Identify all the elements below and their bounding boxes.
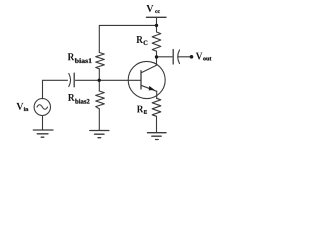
label Vcc V bbox=[146, 5, 153, 12]
wire node to Rbias2 bbox=[98, 80, 100, 91]
wire input node to cap bbox=[76, 79, 100, 81]
wire collector into transistor bbox=[141, 57, 156, 73]
transistor Q1 circle bbox=[128, 61, 165, 98]
ground RE bbox=[148, 132, 167, 134]
wire base from bias node bbox=[99, 79, 141, 81]
capacitor C1 curved plate bbox=[69, 74, 71, 87]
resistor Rbias2 zigzag bbox=[96, 91, 105, 109]
node dot Vout terminal bbox=[190, 55, 194, 59]
label RC C sub bbox=[144, 41, 148, 45]
label Vin V bbox=[16, 103, 23, 110]
wire Rbias2 to ground bbox=[98, 109, 100, 131]
label Rbias1 R bbox=[68, 53, 75, 60]
resistor Rbias1 zigzag bbox=[96, 53, 105, 69]
wire source to ground bbox=[42, 116, 44, 130]
ground Vin bbox=[33, 129, 53, 131]
wire RC bottom to collector node bbox=[156, 51, 158, 57]
resistor RC zigzag bbox=[152, 32, 161, 51]
label Rbias2 bias2 sub bbox=[75, 99, 89, 104]
wire Vcc stem bbox=[156, 17, 158, 32]
ground Rbias2 bbox=[90, 130, 109, 132]
label Vout V bbox=[196, 53, 203, 60]
wire collector node to output cap bbox=[157, 56, 173, 58]
transistor emitter arrowhead bbox=[149, 86, 155, 91]
Vcc bar bbox=[147, 16, 167, 18]
capacitor C2 straight plate bbox=[172, 50, 174, 65]
label Vout out sub bbox=[203, 57, 211, 60]
wire top rail from Rbias1 to Vcc node bbox=[99, 25, 156, 52]
resistor RE zigzag bbox=[152, 98, 161, 116]
capacitor C2 curved plate bbox=[178, 50, 180, 64]
node dot bias junction bbox=[98, 79, 101, 82]
node dot Vcc junction bbox=[155, 24, 158, 27]
wire Vin to cap bbox=[43, 80, 68, 99]
label Rbias2 R bbox=[68, 94, 75, 101]
sine wave inside source bbox=[37, 105, 48, 110]
wire RE to ground bbox=[156, 116, 158, 132]
wire emitter to RE bbox=[156, 91, 158, 98]
transistor base bar bbox=[140, 71, 142, 89]
label Rbias1 bias1 sub bbox=[75, 58, 92, 63]
AC source Vin circle bbox=[34, 99, 50, 116]
transistor emitter diagonal bbox=[141, 85, 157, 91]
label RE E sub bbox=[144, 110, 147, 113]
wire cap to Vout bbox=[178, 56, 190, 58]
node dot collector junction bbox=[155, 55, 158, 58]
label Vin in sub bbox=[24, 107, 29, 111]
label RE R bbox=[137, 106, 144, 113]
label RC R bbox=[136, 36, 143, 43]
capacitor C1 straight plate bbox=[73, 73, 75, 87]
wire Rbias1 to node bbox=[98, 69, 100, 80]
label Vcc cc sub bbox=[155, 10, 160, 13]
